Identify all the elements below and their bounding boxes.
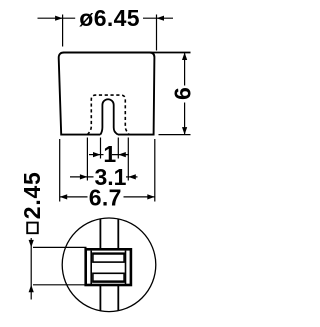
bottom contact bar bbox=[93, 273, 124, 282]
dimension square 2.45: value text (rotated) bbox=[27, 223, 38, 234]
dimension 1 (slot width): extension lines bbox=[100, 138, 102, 159]
dimension diameter 6.45: dimension line and arrows bbox=[38, 17, 76, 19]
svg-text:6: 6 bbox=[169, 87, 195, 100]
dimension diameter 6.45: extension lines bbox=[62, 15, 64, 47]
slot (solid U notch at bottom center) bbox=[100, 99, 118, 134]
dimension 6.7: dimension line and arrows bbox=[60, 196, 88, 198]
svg-text:6.7: 6.7 bbox=[89, 184, 122, 210]
circle (bottom view of round body) bbox=[62, 218, 156, 312]
dimension 3.1: dimension line and arrows bbox=[70, 176, 94, 178]
svg-text:ø6.45: ø6.45 bbox=[79, 5, 140, 31]
dimension 1: dimension line and arrows bbox=[89, 154, 104, 156]
dimension 3.1: extension lines bbox=[86, 138, 88, 181]
top contact bar bbox=[93, 253, 124, 262]
dimension square 2.45: dimension line and arrows bbox=[30, 238, 32, 300]
dimension 6.7 (overall width): extension lines bbox=[59, 139, 61, 202]
dimension square 2.45: extension lines bbox=[33, 246, 87, 248]
svg-text:2.45: 2.45 bbox=[19, 171, 45, 219]
dimension 6 (height): extension lines bbox=[63, 52, 191, 54]
through slot band (bottom view) bbox=[99, 219, 101, 249]
dimension 6: dimension line and arrows bbox=[184, 53, 186, 86]
square hole inner right wall bbox=[125, 251, 127, 285]
square hole (bold outline, bottom view) bbox=[86, 249, 131, 285]
square hole inner left wall bbox=[90, 251, 92, 285]
body outline (top view of cap) bbox=[59, 53, 155, 135]
hidden square hole (dashed profile) bbox=[87, 95, 129, 135]
